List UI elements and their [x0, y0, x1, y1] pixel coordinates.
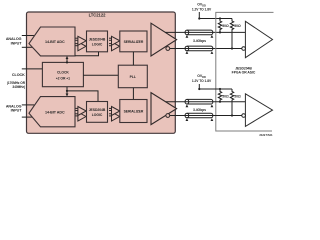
ADC U7 14-BIT ADC (channel 2)	[29, 97, 75, 127]
block U3 JESD204B LOGIC (channel 1)	[87, 31, 108, 52]
svg-text:÷2 OR ÷1: ÷2 OR ÷1	[56, 77, 70, 81]
svg-text:JESD204B: JESD204B	[89, 38, 106, 42]
wire serial output 1+	[165, 31, 245, 33]
driver amplifier A1 (channel 1 CML driver)	[151, 23, 177, 56]
wire serial output 2+	[166, 101, 246, 103]
transmission line TL4	[185, 113, 213, 121]
svg-text:SERIALIZER: SERIALIZER	[124, 40, 144, 44]
svg-text:50Ω: 50Ω	[222, 24, 229, 28]
wire JESD204B logic 1 to ADC1 edge	[75, 52, 99, 56]
wire clock to JESD204B logic 2	[67, 91, 98, 102]
bus arrow JESD204B logic 2 to serializer 2	[109, 107, 120, 122]
driver amplifier A3 (channel 2 CML driver)	[151, 93, 177, 125]
node clock branch to JESD204B logic 2	[66, 90, 68, 92]
svg-text:50Ω: 50Ω	[234, 24, 241, 28]
transmission line TL2	[185, 46, 213, 54]
inverting bubble on receiver 2 input	[242, 114, 246, 118]
inverting bubble on receiver 1 input	[242, 47, 246, 51]
inverting bubble on driver 2 output	[166, 114, 170, 118]
svg-text:INPUT: INPUT	[11, 41, 23, 45]
resistor R4 50Ω	[230, 89, 233, 116]
svg-text:50Ω: 50Ω	[222, 95, 229, 99]
wire clock input	[22, 68, 43, 70]
wire analog input 1-	[22, 46, 34, 48]
node resistor R3 bottom on line 2+	[219, 101, 221, 103]
wire PLL to serializer 2	[132, 88, 134, 100]
transmission line TL1	[185, 30, 213, 38]
bus arrow JESD204B logic 1 to serializer 1	[109, 36, 120, 51]
resistor R3 50Ω	[218, 89, 221, 102]
receiver amplifier A2 (channel 1)	[245, 21, 272, 57]
svg-text:3.4Gbps: 3.4Gbps	[193, 108, 206, 112]
svg-text:SERIALIZER: SERIALIZER	[124, 110, 144, 114]
node resistor R1 bottom on line 1+	[219, 31, 221, 33]
receiver amplifier A4 (channel 2)	[245, 94, 272, 127]
bus arrow ADC1 to JESD204B logic 1	[75, 36, 86, 51]
chip U1 LTC2122 body	[27, 12, 176, 133]
svg-text:1.2V TO 1.8V: 1.2V TO 1.8V	[192, 79, 212, 83]
bus arrow ADC2 to JESD204B logic 2	[75, 107, 86, 122]
svg-text:1.2V TO 1.8V: 1.2V TO 1.8V	[192, 8, 212, 12]
resistor R1 50Ω	[218, 19, 221, 33]
block U4 SERIALIZER (channel 1)	[120, 31, 147, 52]
wire PLL to serializer 1	[132, 52, 134, 65]
wire clock to ADC1 with arrow	[66, 58, 68, 63]
svg-text:14-BIT ADC: 14-BIT ADC	[45, 40, 65, 44]
transmission line TL3	[185, 99, 213, 107]
svg-text:3.4Gbps: 3.4Gbps	[193, 39, 206, 43]
block U6 PLL	[118, 65, 147, 88]
block U5 CLOCK divider	[42, 62, 83, 86]
node resistor R1 top	[219, 17, 221, 19]
node resistor R2 bottom on line 1-	[231, 47, 233, 49]
wire OVDD feed (bottom)	[199, 84, 232, 89]
wire clock to ADC2	[66, 87, 68, 95]
node OVDD rail bottom	[198, 88, 200, 90]
svg-text:50Ω: 50Ω	[234, 95, 241, 99]
svg-text:LOGIC: LOGIC	[92, 42, 103, 46]
svg-text:CLOCK: CLOCK	[57, 71, 69, 75]
block U8 JESD204B LOGIC (channel 2)	[87, 102, 108, 123]
svg-text:JESD204B: JESD204B	[89, 108, 106, 112]
svg-text:PLL: PLL	[130, 75, 136, 79]
svg-text:2122 TA01: 2122 TA01	[259, 133, 273, 137]
ADC U2 14-BIT ADC (channel 1)	[29, 27, 75, 56]
FPGA box JESD204B FPGA OR ASIC	[216, 12, 274, 131]
wire analog input 2+	[22, 104, 35, 106]
svg-text:CLOCK: CLOCK	[12, 73, 25, 77]
node clock to ADC1 junction	[66, 61, 68, 63]
wire OVDD feed (top)	[199, 12, 232, 19]
svg-text:LTC2122: LTC2122	[89, 13, 107, 18]
wire serial output 2-	[170, 115, 242, 117]
node resistor R3 top	[219, 88, 221, 90]
node OVDD rail top	[198, 17, 200, 19]
wire serial output 1-	[170, 48, 242, 50]
svg-text:14-BIT ADC: 14-BIT ADC	[45, 110, 65, 114]
inverting bubble on driver 1 output	[166, 47, 170, 51]
svg-text:FPGA OR ASIC: FPGA OR ASIC	[232, 71, 256, 75]
wire clock to PLL	[83, 74, 118, 76]
block U9 SERIALIZER (channel 2)	[120, 100, 147, 123]
wire analog input 2-	[22, 116, 33, 118]
node resistor R4 bottom on line 2-	[231, 114, 233, 116]
svg-text:LOGIC: LOGIC	[92, 113, 103, 117]
svg-text:INPUT: INPUT	[11, 109, 23, 113]
resistor R2 50Ω	[230, 19, 233, 49]
wire analog input 1+	[22, 35, 34, 37]
svg-text:340MHz): 340MHz)	[12, 85, 25, 89]
